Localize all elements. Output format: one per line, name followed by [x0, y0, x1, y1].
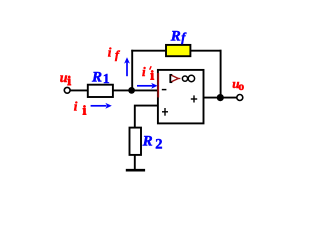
svg-text:R: R	[170, 29, 181, 45]
svg-text:i: i	[67, 73, 71, 88]
svg-text:i: i	[74, 98, 78, 113]
svg-text:i: i	[150, 68, 154, 83]
svg-text:i: i	[142, 64, 146, 79]
svg-text:2: 2	[155, 137, 162, 153]
svg-text:R: R	[142, 133, 153, 149]
svg-text:1: 1	[103, 71, 110, 86]
svg-text:i: i	[83, 102, 87, 117]
svg-text:R: R	[91, 70, 102, 86]
svg-text:f: f	[181, 31, 187, 45]
svg-text:o: o	[238, 81, 244, 93]
svg-text:i: i	[108, 44, 112, 59]
svg-text:f: f	[115, 48, 120, 62]
